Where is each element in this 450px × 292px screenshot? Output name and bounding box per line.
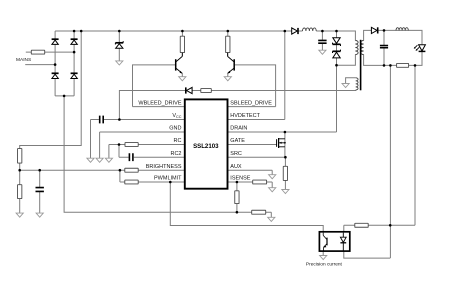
svg-text:HVDETECT: HVDETECT [230, 113, 260, 119]
svg-text:BRIGHTNESS: BRIGHTNESS [146, 164, 182, 170]
svg-text:SRC: SRC [230, 151, 242, 157]
svg-text:MAINS: MAINS [16, 57, 31, 63]
svg-text:SBLEED_DRIVE: SBLEED_DRIVE [230, 100, 272, 106]
svg-text:RC: RC [174, 138, 182, 144]
svg-text:DRAIN: DRAIN [230, 126, 247, 132]
svg-text:PWMLIMIT: PWMLIMIT [154, 176, 182, 182]
svg-text:GND: GND [169, 126, 181, 132]
svg-text:GATE: GATE [230, 138, 245, 144]
svg-text:RC2: RC2 [170, 151, 181, 157]
svg-text:Precision current: Precision current [306, 261, 343, 267]
svg-text:AUX: AUX [230, 164, 242, 170]
svg-text:SSL2103: SSL2103 [193, 143, 219, 150]
svg-text:ISENSE: ISENSE [230, 176, 251, 182]
svg-text:WBLEED_DRIVE: WBLEED_DRIVE [138, 100, 181, 106]
